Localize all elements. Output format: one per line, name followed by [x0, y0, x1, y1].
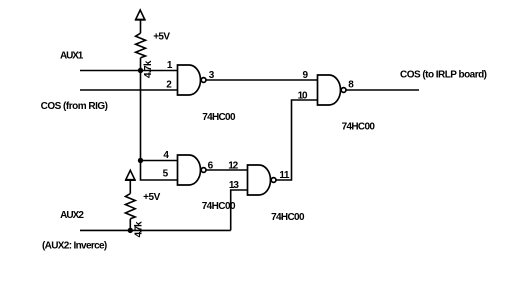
op gate U1A nand body	[178, 65, 201, 95]
power symbol +5V (bottom)	[125, 170, 136, 180]
svg-text:74HC00: 74HC00	[202, 112, 236, 123]
resistor R1	[136, 33, 146, 58]
svg-text:COS (to IRLP board): COS (to IRLP board)	[400, 70, 487, 81]
wire: node B to pin 4	[141, 160, 178, 162]
svg-text:9: 9	[303, 70, 309, 81]
svg-text:74HC00: 74HC00	[271, 212, 305, 223]
svg-text:(AUX2: Inverce): (AUX2: Inverce)	[42, 241, 107, 252]
svg-text:74HC00: 74HC00	[342, 122, 376, 133]
op gate U1B nand body (pins 4,5 -> 6)	[178, 155, 201, 185]
wire: pin 3 output to pin 9	[206, 79, 317, 81]
svg-text:5: 5	[163, 169, 169, 180]
wire: pin 6 output to pin 12	[206, 169, 247, 171]
op gate U1A output bubble	[201, 78, 206, 83]
wire AUX1 input to pin 1	[80, 70, 178, 72]
op gate U1C nand body (pins 9,10 -> 8)	[318, 75, 341, 105]
wire: resistor R2 to node C	[129, 219, 131, 231]
resistor R2	[125, 194, 135, 219]
wire: node A down to pin 5 corner	[141, 71, 178, 181]
wire: resistor R1 to node A	[140, 58, 142, 71]
svg-text:1: 1	[167, 60, 173, 71]
wire: power symbol to resistor R2	[129, 180, 131, 193]
svg-text:3: 3	[209, 70, 215, 81]
wire AUX2 input line to pin 13 drop	[80, 229, 231, 231]
svg-text:4.7k: 4.7k	[133, 221, 144, 237]
svg-text:12: 12	[228, 161, 238, 172]
op gate U1C output bubble	[341, 88, 346, 93]
wire: power symbol to resistor R1	[140, 20, 142, 33]
power symbol +5V (top)	[135, 10, 146, 20]
node A junction dot	[138, 68, 143, 73]
svg-text:+5V: +5V	[143, 192, 161, 203]
wire COS (from RIG) input to pin 2	[80, 89, 178, 91]
svg-text:AUX1: AUX1	[60, 51, 84, 62]
node C junction dot	[128, 228, 133, 233]
wire: pin 13 left-down to AUX2 line	[231, 190, 248, 230]
wire: pin 8 output COS (to IRLP board)	[346, 89, 419, 91]
svg-text:+5V: +5V	[153, 31, 170, 42]
svg-text:COS (from RIG): COS (from RIG)	[41, 101, 108, 112]
node B junction dot	[138, 158, 143, 163]
op gate U1D output bubble	[271, 178, 276, 183]
svg-text:4: 4	[163, 150, 169, 161]
op gate U1B output bubble	[201, 168, 206, 173]
svg-text:8: 8	[348, 80, 354, 91]
wire: pin 11 output up to pin 10	[276, 100, 317, 180]
svg-text:2: 2	[166, 79, 172, 90]
op gate U1D nand body (pins 12,13 -> 11)	[248, 165, 271, 195]
svg-text:AUX2: AUX2	[60, 210, 84, 221]
svg-text:4.7k: 4.7k	[143, 60, 154, 78]
